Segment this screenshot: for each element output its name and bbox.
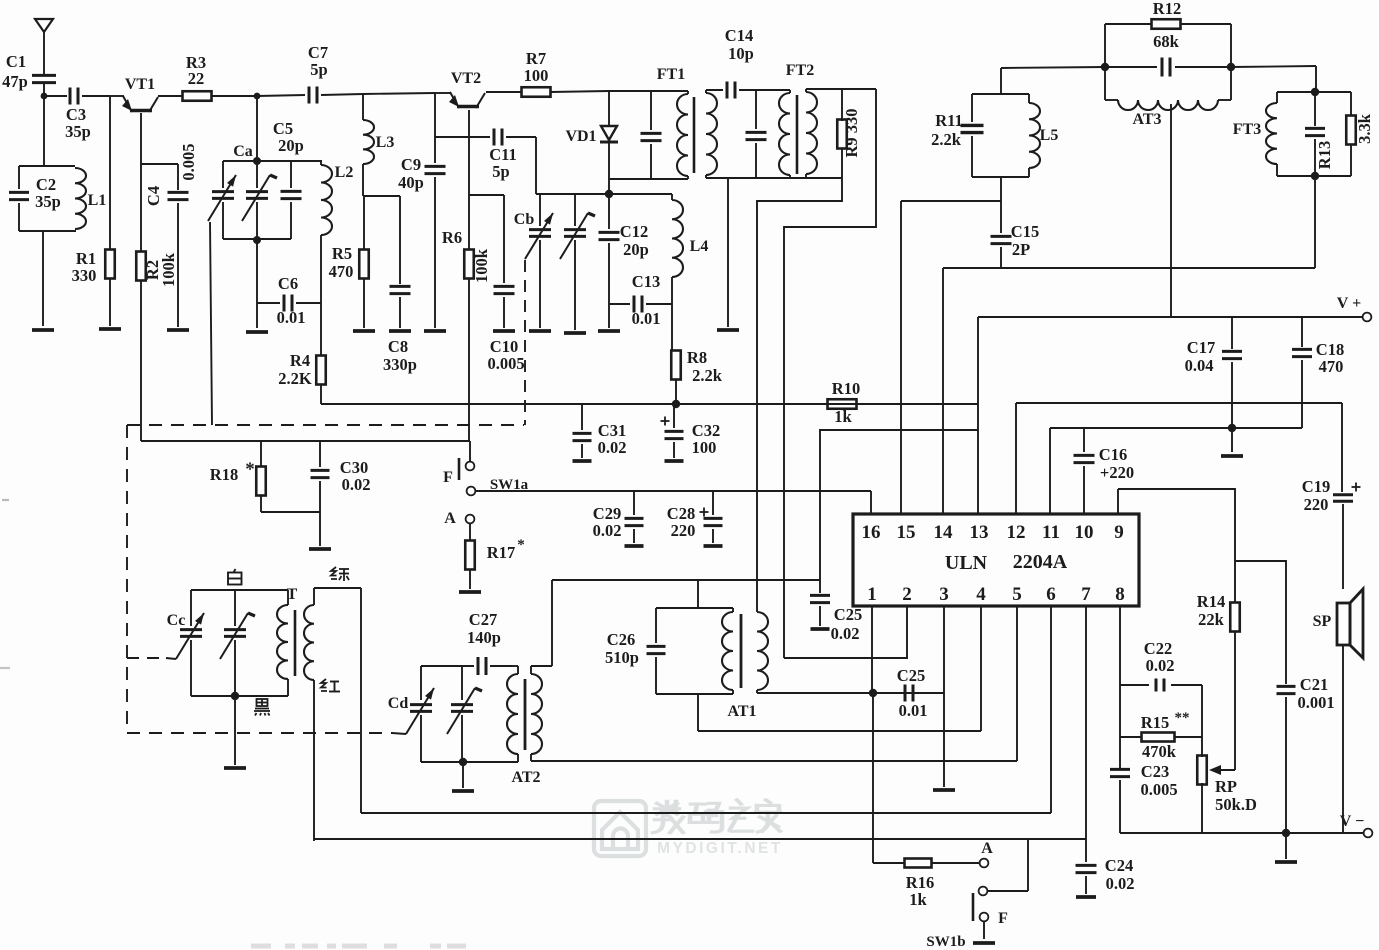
svg-text:AT1: AT1 [727, 703, 756, 720]
resistor R15 [1120, 710, 1202, 761]
svg-text:10p: 10p [728, 44, 754, 63]
wire [363, 278, 365, 328]
wire L5 tap [901, 201, 1001, 514]
svg-text:AT3: AT3 [1132, 111, 1161, 128]
svg-text:FT3: FT3 [1233, 121, 1261, 138]
svg-text:14: 14 [934, 522, 954, 543]
svg-text:L2: L2 [335, 164, 354, 181]
capacitor C12 [599, 194, 649, 304]
svg-text:R8: R8 [687, 348, 707, 367]
inductor AT2 primary [507, 666, 518, 762]
wire pin3 ground [943, 606, 945, 787]
svg-text:V +: V + [1337, 295, 1361, 312]
capacitor C27 [467, 610, 512, 675]
capacitor C7 [308, 43, 328, 104]
wire C11 branch [435, 136, 490, 138]
svg-text:R5: R5 [332, 244, 352, 263]
node [1311, 172, 1319, 180]
capacitor C18 [1292, 317, 1344, 428]
wire pin8 [1119, 606, 1121, 768]
capacitor C19 [1302, 403, 1361, 589]
resistor R7 [522, 49, 551, 97]
trimmer Ca-1 [208, 143, 253, 239]
svg-text:A: A [981, 840, 993, 857]
inductor L1 [75, 168, 106, 229]
node [1227, 63, 1235, 71]
svg-text:0.02: 0.02 [598, 438, 627, 457]
svg-text:R17: R17 [487, 543, 515, 562]
resistor R2 [136, 252, 178, 287]
resistor R4 [278, 351, 325, 388]
inductor T secondary [304, 588, 314, 841]
svg-text:330p: 330p [383, 355, 417, 374]
wire [363, 195, 400, 197]
capacitor C30 [311, 441, 371, 546]
svg-text:12: 12 [1007, 522, 1026, 543]
transistor VT1 [122, 76, 158, 112]
svg-text:C23: C23 [1141, 762, 1169, 781]
svg-text:R10: R10 [832, 379, 860, 398]
wire pin1 [872, 606, 873, 863]
svg-text:R12: R12 [1153, 0, 1181, 18]
core FT2 [796, 95, 799, 174]
wire [140, 281, 142, 441]
wire [1000, 177, 1002, 233]
svg-text:Cc: Cc [167, 612, 186, 629]
wire [469, 441, 471, 462]
wire FT1-FT2 bottom [706, 177, 842, 179]
ground [717, 328, 739, 332]
svg-text:FT2: FT2 [786, 62, 814, 79]
wire [234, 696, 236, 765]
inductor L5 [1029, 94, 1058, 177]
wire box bottom [191, 695, 288, 697]
diode VD1 [565, 91, 618, 179]
wire [320, 238, 322, 355]
svg-text:C25: C25 [834, 605, 862, 624]
trimmer Cb-2 [560, 194, 595, 330]
svg-text:40p: 40p [398, 173, 424, 192]
svg-text:VT1: VT1 [125, 76, 155, 93]
capacitor C16 [1074, 428, 1135, 514]
capacitor C13 [609, 272, 672, 328]
wire box top [656, 607, 733, 609]
svg-text:AT2: AT2 [511, 769, 540, 786]
wire [109, 279, 111, 326]
wire [256, 240, 258, 303]
ground [99, 327, 121, 331]
resistor R5 [329, 244, 369, 281]
resistor R11 [931, 94, 983, 177]
capacitor C17 [1185, 317, 1242, 452]
svg-text:0.005: 0.005 [179, 143, 198, 180]
wire [739, 89, 790, 91]
svg-text:L1: L1 [88, 192, 107, 209]
wire Ca box top [223, 160, 322, 162]
svg-text:3: 3 [939, 584, 949, 605]
resistor R14 [1197, 592, 1240, 632]
wire [43, 96, 45, 166]
svg-text:1k: 1k [834, 407, 852, 426]
trimmer Cd [388, 666, 434, 762]
wire zobel [1235, 561, 1286, 684]
trimmer Cc [167, 590, 204, 696]
inductor FT1 primary [677, 91, 688, 179]
resistor R10 [828, 379, 861, 426]
ground [973, 941, 995, 945]
capacitor C26 [605, 608, 665, 694]
capacitor FT2-C [746, 90, 767, 178]
wire base line [141, 440, 470, 442]
svg-text:2.2k: 2.2k [931, 130, 962, 149]
svg-text:T: T [287, 586, 298, 603]
svg-text:0.01: 0.01 [632, 309, 661, 328]
capacitor C32 [661, 404, 721, 461]
gang dashed left [126, 425, 128, 733]
svg-text:L5: L5 [1040, 127, 1059, 144]
capacitor C10 [487, 195, 524, 373]
capacitor C3 [65, 88, 110, 142]
antenna [35, 19, 53, 73]
wire [977, 317, 979, 514]
svg-text:0.04: 0.04 [1185, 356, 1214, 375]
node [253, 157, 261, 165]
svg-text:C25: C25 [897, 666, 925, 685]
resistor R17 [465, 523, 525, 589]
capacitor C14 [725, 26, 754, 99]
resistor R6 [442, 228, 491, 283]
svg-text:100: 100 [692, 438, 717, 457]
svg-text:C15: C15 [1011, 222, 1039, 241]
ground [424, 329, 446, 333]
resistor R18 [210, 441, 266, 512]
wire [257, 95, 305, 96]
capacitor C28 [667, 491, 723, 546]
wire C15 line [943, 268, 1315, 514]
wire gang link Cb [524, 260, 526, 425]
wire rail [552, 579, 820, 581]
ground [1275, 833, 1297, 862]
wire [44, 95, 67, 97]
wire [462, 762, 464, 788]
wire FT1 bottom [609, 178, 688, 180]
svg-text:2.2k: 2.2k [692, 366, 723, 385]
svg-text:20p: 20p [278, 136, 304, 155]
svg-text:470: 470 [1319, 357, 1344, 376]
potentiometer RP [1197, 756, 1257, 834]
wire [609, 90, 688, 92]
wire node line [536, 193, 672, 195]
svg-text:1k: 1k [909, 890, 927, 909]
svg-text:R6: R6 [442, 228, 462, 247]
wire box bottom [656, 693, 733, 695]
svg-text:3.3k: 3.3k [1355, 113, 1374, 144]
svg-text:20p: 20p [623, 240, 649, 259]
wire [321, 93, 450, 95]
svg-text:*: * [517, 537, 525, 553]
wire [1105, 66, 1157, 68]
wire FT2 sec route [757, 178, 842, 607]
wire [321, 385, 547, 404]
svg-text:F: F [443, 469, 453, 486]
svg-text:10: 10 [1075, 522, 1094, 543]
capacitor C25a [810, 580, 862, 643]
switch SW1a [443, 458, 529, 495]
svg-text:SW1b: SW1b [926, 934, 965, 950]
wire [1001, 67, 1105, 68]
wire V- rail [1120, 832, 1363, 834]
wire bias rail [547, 403, 978, 405]
svg-text:220: 220 [1304, 495, 1329, 514]
core AT2 [524, 679, 527, 750]
svg-text:R11: R11 [935, 111, 963, 130]
wire green lead [314, 588, 361, 813]
wire [256, 303, 258, 328]
node [231, 692, 239, 700]
terminal V- [1340, 813, 1373, 837]
wire box top [191, 589, 288, 591]
speaker SP [1313, 589, 1363, 833]
wire [1234, 631, 1236, 770]
capacitor FT1-C [641, 91, 662, 179]
wire box bottom [421, 761, 518, 763]
svg-text:C1: C1 [6, 52, 26, 71]
capacitor C15 [991, 222, 1040, 268]
wire [211, 95, 257, 97]
svg-text:0.01: 0.01 [277, 308, 306, 327]
svg-text:68k: 68k [1153, 32, 1180, 51]
wire VT2 emitter lead [468, 110, 470, 250]
svg-text:L3: L3 [376, 134, 395, 151]
wire [1314, 176, 1316, 268]
capacitor FT3-C [1305, 92, 1334, 176]
svg-text:R15: R15 [1141, 713, 1169, 732]
inductor L4 [672, 194, 708, 304]
gang dashed bottom [127, 732, 392, 734]
wire pin11 line [1050, 428, 1302, 514]
wire V+ rail [978, 316, 1362, 318]
wire AT3 tap [1170, 104, 1172, 317]
node [459, 758, 467, 766]
label red winding [321, 679, 340, 692]
node antenna-in [41, 93, 48, 100]
wire [706, 89, 723, 91]
svg-text:C4: C4 [144, 186, 163, 206]
node Ca-top [254, 93, 261, 100]
svg-text:9: 9 [1114, 522, 1124, 543]
svg-text:RP: RP [1215, 777, 1237, 796]
node [672, 400, 680, 408]
svg-text:SP: SP [1313, 613, 1332, 630]
wire [158, 95, 183, 97]
wire [261, 511, 320, 513]
svg-text:FT1: FT1 [657, 66, 685, 83]
wire Cc tail [166, 658, 176, 659]
caption mark [251, 944, 466, 949]
label black node [254, 699, 270, 716]
label FT1 [657, 66, 685, 83]
inductor AT2 secondary [511, 580, 552, 786]
svg-text:F: F [998, 910, 1008, 927]
resistor R1 [72, 249, 115, 285]
svg-text:5: 5 [1012, 584, 1022, 605]
wire line-A [361, 606, 1051, 813]
svg-text:C9: C9 [401, 155, 421, 174]
svg-text:0.02: 0.02 [342, 475, 371, 494]
svg-text:8: 8 [1115, 584, 1125, 605]
svg-text:11: 11 [1042, 522, 1060, 543]
capacitor C1 [2, 52, 56, 96]
terminal V+ [1337, 295, 1372, 321]
wire [141, 164, 178, 190]
wire Cd tail [392, 733, 406, 734]
svg-text:0.005: 0.005 [487, 354, 524, 373]
wire C10 branch [469, 194, 504, 196]
wire pin2 loop [784, 606, 907, 658]
ground [167, 328, 189, 332]
svg-text:22k: 22k [1198, 610, 1225, 629]
svg-text:35p: 35p [65, 122, 91, 141]
resistor R16 [873, 859, 979, 910]
wire line-B [314, 838, 1086, 840]
svg-text:1: 1 [867, 584, 877, 605]
svg-text:C13: C13 [632, 272, 660, 291]
svg-text:R14: R14 [1197, 592, 1225, 611]
wire [698, 606, 981, 731]
svg-text:V −: V − [1340, 813, 1364, 830]
ground [564, 331, 586, 335]
wire pin7 C24 [1085, 606, 1087, 839]
ground [459, 590, 481, 594]
svg-text:470k: 470k [1142, 742, 1177, 761]
svg-text:C26: C26 [607, 630, 635, 649]
capacitor C29 [593, 491, 644, 546]
svg-text:C21: C21 [1300, 675, 1328, 694]
wire [983, 922, 985, 939]
wire [110, 95, 124, 97]
wire [988, 839, 1028, 891]
wire FT2 top route [784, 89, 876, 658]
svg-text:Ca: Ca [233, 143, 253, 160]
svg-text:100k: 100k [472, 248, 491, 283]
wire [806, 88, 876, 90]
capacitor C24 [1076, 839, 1135, 897]
svg-text:VD1: VD1 [565, 128, 596, 145]
inductor L2 [321, 161, 353, 238]
node [253, 236, 261, 244]
svg-text:2P: 2P [1012, 240, 1030, 259]
capacitor C9 [398, 93, 445, 328]
svg-text:510p: 510p [605, 648, 639, 667]
wire [468, 278, 470, 441]
svg-text:0.02: 0.02 [831, 624, 860, 643]
svg-text:VT2: VT2 [451, 70, 481, 87]
wire [109, 96, 111, 249]
svg-text:C19: C19 [1302, 477, 1330, 496]
resistor R12 [1152, 0, 1182, 51]
watermark [594, 800, 783, 857]
svg-text:0.005: 0.005 [1140, 780, 1177, 799]
svg-text:R18: R18 [210, 465, 238, 484]
wire box top [421, 665, 474, 667]
svg-text:2: 2 [902, 584, 912, 605]
terminal A [444, 510, 474, 527]
wire [256, 96, 258, 161]
svg-text:330: 330 [72, 266, 97, 285]
inductor T primary [277, 590, 288, 696]
svg-text:100: 100 [524, 66, 549, 85]
inductor FT2 primary [779, 90, 790, 178]
inductor FT2 secondary [806, 89, 817, 178]
IC U1 ULN2204A [853, 514, 1139, 606]
label green winding [331, 567, 349, 581]
svg-text:5p: 5p [492, 162, 509, 181]
capacitor C4 [144, 143, 198, 327]
node [1311, 88, 1319, 96]
svg-text:0.02: 0.02 [1106, 874, 1135, 893]
svg-text:470: 470 [329, 262, 354, 281]
scan speck [0, 500, 10, 668]
ground [224, 766, 246, 770]
inductor FT1 secondary [706, 90, 717, 178]
wire AT1 out [757, 692, 944, 694]
wire R12 branch [1105, 24, 1231, 67]
wire AT2 out [531, 606, 1017, 761]
node [605, 190, 613, 198]
wire pin16 feed [819, 430, 978, 580]
wire SW1a out [475, 491, 871, 514]
svg-text:2.2K: 2.2K [278, 369, 312, 388]
svg-text:R9 330: R9 330 [842, 108, 861, 157]
wire [608, 304, 610, 328]
svg-text:C16: C16 [1099, 445, 1127, 464]
svg-text:**: ** [1175, 710, 1190, 726]
gang dashed line top [127, 424, 524, 426]
svg-text:5p: 5p [310, 60, 327, 79]
ground [246, 330, 268, 334]
capacitor C21 [1277, 675, 1335, 833]
svg-text:C17: C17 [1187, 338, 1215, 357]
inductor AT1 primary [722, 608, 733, 694]
switch SW1b [926, 840, 1008, 950]
ground [933, 788, 955, 792]
svg-text:16: 16 [862, 522, 881, 543]
wire [727, 178, 729, 327]
wire [550, 91, 609, 92]
svg-text:C27: C27 [469, 610, 497, 629]
wire [675, 379, 677, 404]
svg-text:*: * [245, 459, 255, 480]
capacitor C11 [489, 129, 536, 195]
resistor R3 [183, 53, 212, 101]
capacitor C8 [383, 196, 417, 374]
svg-text:C24: C24 [1105, 856, 1133, 875]
core T [287, 586, 298, 676]
svg-text:0.01: 0.01 [899, 701, 928, 720]
gang dashed stub [127, 657, 166, 659]
svg-text:6: 6 [1046, 584, 1056, 605]
ground [598, 329, 620, 333]
ground [389, 329, 411, 333]
label FT2 [786, 62, 814, 79]
svg-text:15: 15 [897, 522, 916, 543]
resistor R8 [671, 348, 722, 385]
svg-text:R4: R4 [290, 351, 310, 370]
core AT1 [740, 614, 743, 688]
svg-text:35p: 35p [35, 192, 61, 211]
svg-text:C14: C14 [725, 26, 753, 45]
svg-text:4: 4 [976, 584, 986, 605]
